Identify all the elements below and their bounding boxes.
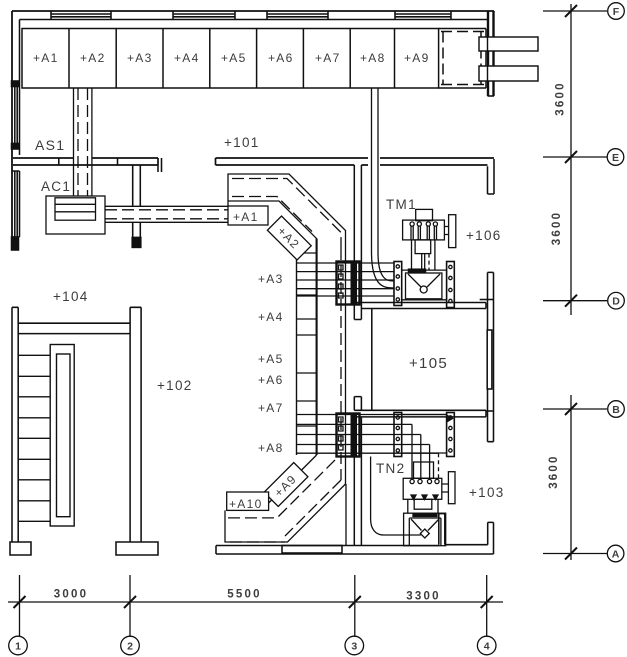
wall: right wall D-B segment	[488, 272, 494, 441]
wall: right window (D-B)	[487, 330, 492, 389]
duct corner lower: outer boundary	[225, 484, 346, 542]
wall: bottom south main	[216, 546, 494, 555]
wall: bottom sub-segment	[282, 546, 342, 554]
svg-text:F: F	[613, 6, 620, 18]
svg-text:+A10: +A10	[229, 497, 263, 511]
transformer TN2 body	[403, 478, 442, 499]
svg-text:+101: +101	[224, 135, 260, 150]
AC1 inner lines	[55, 204, 96, 212]
svg-text:+A4: +A4	[258, 310, 284, 324]
TN2 bushings	[410, 479, 439, 483]
wall: bottom-right door recess	[439, 514, 445, 545]
TN2 radiator bar	[448, 472, 455, 504]
TN2 ground cable curve	[371, 457, 421, 536]
dimension: bottom horizontal line	[8, 601, 503, 603]
TM1 duct V conductors	[408, 274, 440, 287]
grid circle E	[607, 149, 624, 166]
duct corner upper: inner dashed companion	[232, 197, 312, 232]
svg-text:+A8: +A8	[360, 51, 386, 65]
wall: AC1 room partition	[132, 165, 141, 247]
grid circle A	[607, 545, 624, 562]
duct corner upper: outer dashed companion	[232, 179, 341, 249]
wall: +105 south tick to outer wall	[486, 410, 494, 412]
TM1 duct node circle	[420, 286, 427, 293]
wall: bottom-right corner	[445, 522, 494, 554]
svg-text:TM1: TM1	[386, 197, 417, 212]
svg-text:+102: +102	[157, 378, 193, 393]
svg-text:+A5: +A5	[221, 51, 247, 65]
svg-text:E: E	[612, 152, 619, 164]
stairwell: west wall	[12, 307, 18, 542]
svg-text:+A3: +A3	[258, 272, 284, 286]
TM1 body internal lines	[411, 226, 437, 240]
TN2 V-box inner	[409, 518, 441, 546]
TM1 down leads	[412, 240, 435, 270]
svg-text:AC1: AC1	[41, 179, 71, 194]
svg-text:B: B	[612, 404, 620, 416]
TN2 down leads	[408, 499, 438, 513]
AC1 cabinet inner	[55, 198, 96, 220]
TM1 duct box	[402, 270, 447, 300]
dim ticks bottom	[14, 596, 493, 608]
wall: +105 west thin line	[371, 309, 373, 411]
grid circle B	[608, 401, 625, 418]
wall sleeve TN2	[337, 414, 360, 457]
svg-text:3600: 3600	[555, 81, 567, 115]
sleeve TM1 squares	[339, 265, 344, 298]
svg-text:+A8: +A8	[258, 441, 284, 455]
svg-text:3: 3	[351, 641, 357, 653]
grid A stub	[543, 553, 607, 555]
sleeve TN2 squares	[339, 417, 344, 450]
wall +101 south, continues to right outer wall	[216, 158, 495, 165]
grid circle 4	[477, 636, 496, 655]
duct corner lower: inner boundary	[269, 455, 317, 503]
stairwell: west wall footing	[10, 542, 31, 555]
TN2 duct right flange	[447, 413, 455, 457]
grid 2 stub	[129, 575, 131, 637]
grid E stub	[543, 156, 607, 158]
cables duct to TN2	[297, 415, 447, 454]
TM1 duct right flange	[447, 262, 455, 308]
transformer TM1 body	[403, 220, 445, 240]
sleeve TN2 wall fill	[351, 415, 358, 456]
wall: right outer top (beside +A9)	[488, 11, 495, 96]
duct corner upper: inner boundary	[228, 201, 317, 248]
svg-text:+A2: +A2	[80, 51, 106, 65]
wall: top inner line	[20, 19, 488, 21]
svg-text:3000: 3000	[54, 589, 88, 601]
svg-text:TN2: TN2	[376, 461, 405, 476]
duct corner lower: dashed companion	[228, 458, 341, 542]
svg-text:+A7: +A7	[258, 401, 284, 415]
grid 1 stub	[19, 575, 21, 637]
TM1 bushings	[410, 222, 438, 226]
wall AS1 room south	[13, 158, 158, 165]
dimension: right vertical line B-A	[570, 395, 572, 560]
svg-text:+A1: +A1	[33, 51, 59, 65]
svg-text:+A7: +A7	[315, 51, 341, 65]
grid 3 stub	[354, 575, 356, 637]
TN2 body arrows	[411, 495, 438, 500]
svg-text:+A6: +A6	[258, 373, 284, 387]
svg-text:4: 4	[484, 641, 490, 653]
wall AS1: end jamb stub	[158, 158, 162, 172]
sleeve TM1 wall fill	[351, 263, 358, 304]
cabinet row +A1..+A9 outline	[22, 29, 439, 89]
wall: left outer line	[11, 11, 13, 250]
label box +A1	[228, 206, 268, 225]
TM1 duct left flange	[394, 262, 402, 306]
cables duct to TM1	[297, 263, 394, 296]
TN2 node diamond	[420, 529, 429, 538]
stairs rail inner	[57, 354, 71, 517]
svg-text:+A9: +A9	[404, 51, 430, 65]
stairwell: north wall	[18, 323, 130, 333]
wall sleeve TM1	[337, 262, 360, 305]
wall: +105 southwest notch	[354, 397, 361, 411]
tray boundary dashed x=341	[340, 248, 342, 480]
svg-text:+A4: +A4	[174, 51, 200, 65]
wall: left inner line	[19, 20, 21, 156]
TM1 duct inner box	[406, 273, 442, 299]
TM1 right connector	[444, 227, 448, 235]
transformer TM1 cap	[416, 209, 433, 220]
dimension: right vertical line F-D	[570, 4, 572, 315]
wall: vertical pair +101 down to +105 north	[354, 165, 361, 320]
label box +A9 rotated	[264, 463, 308, 507]
wall: left windows	[12, 86, 20, 237]
TN2 dark bar	[413, 514, 437, 517]
TN2 V-box outer	[404, 513, 446, 546]
grid circle D	[608, 292, 625, 309]
wall: left wall sill mark	[12, 81, 20, 87]
busbar outgoing 1 (top right)	[479, 37, 538, 51]
svg-text:D: D	[612, 296, 620, 308]
wall: top windows sill segments	[51, 11, 451, 20]
dim ticks right	[565, 5, 577, 560]
grid B stub	[543, 408, 607, 410]
TN2 right connector	[442, 484, 449, 492]
TM1 duct dark bar	[408, 269, 425, 272]
svg-text:+A1: +A1	[233, 210, 259, 224]
svg-text:3600: 3600	[551, 211, 563, 245]
bus duct vertical run +A3..+A8	[296, 248, 298, 455]
grid F stub	[543, 10, 607, 12]
TN2 lower small box	[414, 499, 432, 509]
wall: right outer wall piece at +106 NE	[488, 159, 495, 194]
wall: +105 south	[354, 410, 486, 417]
TN2 duct box lines	[402, 415, 447, 454]
wall: top outer line	[12, 10, 494, 12]
TN2 V conductors	[411, 519, 439, 531]
grid 4 stub	[486, 575, 488, 637]
svg-text:+A3: +A3	[127, 51, 153, 65]
cabinet separators	[69, 29, 395, 89]
svg-text:5500: 5500	[227, 589, 261, 601]
svg-text:3300: 3300	[406, 591, 440, 603]
svg-text:AS1: AS1	[35, 137, 65, 153]
TM1 lower box	[415, 240, 431, 254]
svg-text:2: 2	[127, 641, 133, 653]
TN2 upper connection box	[414, 462, 434, 478]
bus duct from +A8 down	[372, 88, 379, 252]
grid D stub	[543, 300, 607, 302]
wall: +105 north tick to outer wall	[480, 299, 494, 301]
wall: +105 north	[354, 303, 486, 309]
stairs rail outer	[50, 345, 74, 527]
wall: left wall end cap	[12, 237, 19, 250]
busbar outgoing 2	[479, 66, 538, 81]
svg-text:+105: +105	[409, 355, 448, 372]
reserved cabinet space	[439, 29, 486, 89]
svg-text:+A5: +A5	[258, 352, 284, 366]
wall: left wall sill mark lower	[12, 144, 20, 150]
bus duct AC1 to corner	[105, 206, 228, 222]
svg-text:+A6: +A6	[268, 51, 294, 65]
svg-text:3600: 3600	[548, 454, 560, 488]
AC1 cabinet outer	[46, 196, 105, 234]
TN2 stepped cable drops	[412, 424, 430, 478]
label box +A10	[227, 492, 269, 510]
grid circle 3	[345, 636, 364, 655]
stairwell: east wall footing	[116, 542, 158, 555]
stairs treads	[18, 355, 50, 521]
TM1 radiator bar	[449, 215, 456, 248]
stairwell: east wall	[130, 307, 141, 542]
TN2 duct left flange	[394, 413, 402, 457]
wall AS1: opening ticks	[59, 158, 118, 165]
svg-text:+104: +104	[53, 289, 89, 304]
svg-text:A: A	[612, 549, 620, 561]
svg-text:+103: +103	[469, 485, 505, 500]
tray boundary solid x=345.5	[345, 238, 348, 546]
duct corner upper: outer boundary	[228, 174, 346, 238]
grid circle 1	[9, 636, 28, 655]
bus duct AS1 from +A2 down to AC1	[74, 88, 92, 196]
TN2 flange arrow	[448, 416, 453, 422]
grid circle F	[608, 3, 625, 20]
svg-text:+106: +106	[466, 228, 502, 243]
svg-text:1: 1	[15, 641, 21, 653]
duct vertical: section separators	[297, 253, 317, 426]
grid circle 2	[121, 636, 140, 655]
bend cables into TM1 duct	[372, 252, 395, 288]
wall: partition +102/+103 below	[354, 417, 361, 546]
label box +A2 rotated	[267, 216, 311, 260]
